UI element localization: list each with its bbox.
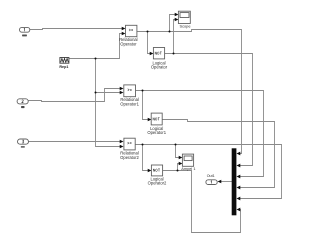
svg-text:Operator2: Operator2	[120, 155, 139, 160]
svg-text:Operator: Operator	[151, 65, 168, 70]
svg-text:Operator: Operator	[120, 42, 137, 47]
svg-text:Scope: Scope	[179, 23, 190, 28]
svg-text:Out1: Out1	[207, 174, 215, 178]
svg-text:Operator1: Operator1	[120, 102, 139, 107]
svg-text:Ampel 1: Ampel 1	[181, 166, 195, 171]
svg-text:Rep1: Rep1	[59, 65, 68, 69]
svg-text:Operator1: Operator1	[147, 130, 166, 135]
svg-text:Operator2: Operator2	[148, 181, 167, 186]
